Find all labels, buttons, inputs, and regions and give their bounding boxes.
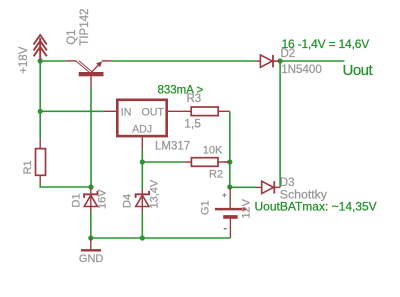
resistor R2 (191, 158, 218, 167)
svg-text:G1: G1 (199, 200, 211, 215)
wire D1 bottom to GND rail (90, 212, 92, 238)
svg-text:R3: R3 (187, 93, 202, 105)
wire Uout stub (280, 60, 344, 62)
svg-text:16V: 16V (97, 189, 109, 209)
pin R1 top (39, 139, 41, 149)
node D2 cathode junction (278, 58, 283, 63)
wire ADJ junction to R2 (142, 161, 183, 163)
battery G1 (215, 187, 246, 238)
wire Q1 base down to D1 junction (90, 88, 92, 188)
diode D3 (256, 181, 281, 193)
pin R2 left (184, 161, 192, 163)
wire top rail left (supply to Q1 collector) (40, 60, 66, 62)
op-amp, regulator U1 LM317 box (117, 100, 166, 136)
wire battery junction to D3 (230, 186, 256, 188)
svg-text:TIP142: TIP142 (79, 9, 91, 46)
diode D2 (255, 55, 280, 67)
wire battery minus corner at GND rail (229, 237, 231, 238)
svg-text:LM317: LM317 (155, 141, 190, 153)
svg-text:R2: R2 (209, 169, 223, 181)
zener diode D4 (136, 189, 149, 212)
pin R1 bottom (39, 175, 41, 185)
svg-text:R1: R1 (22, 160, 34, 174)
svg-text:ADJ: ADJ (132, 123, 152, 135)
wire right tall rail D2 to D3 (279, 61, 281, 187)
zener diode D1 (84, 187, 97, 212)
supply arrow +18V (34, 35, 47, 61)
node ADJ junction (140, 159, 145, 164)
svg-text:16 -1,4V = 14,6V: 16 -1,4V = 14,6V (282, 37, 370, 51)
ground symbol GND (81, 238, 101, 250)
node D1 junction (88, 184, 93, 189)
node GND rail D4 junction (140, 235, 145, 240)
pin R3 right (218, 110, 230, 112)
svg-text:GND: GND (79, 253, 104, 265)
wire R1 bottom to D1 junction (40, 185, 91, 188)
pin D2 cathode over dot (273, 60, 280, 62)
svg-text:10K: 10K (203, 145, 223, 157)
pin R2 right over dot (224, 161, 230, 163)
node +18V junction (38, 58, 43, 63)
svg-text:+18V: +18V (18, 46, 30, 74)
supply pin over dot (39, 52, 41, 61)
wire right mid rail down (229, 111, 231, 187)
wire GND rail (91, 237, 231, 239)
pin LM317 ADJ (141, 137, 143, 151)
node battery plus junction (227, 184, 232, 189)
pin LM317 IN (104, 110, 116, 112)
svg-text:UoutBATmax: ~14,35V: UoutBATmax: ~14,35V (255, 200, 377, 214)
wire ADJ junction down to D4 (141, 162, 143, 189)
wire ADJ to junction (141, 151, 143, 163)
node GND rail left junction (88, 235, 93, 240)
wire D4 bottom to GND rail (141, 212, 143, 238)
svg-text:12V: 12V (241, 198, 253, 218)
svg-text:OUT: OUT (142, 107, 165, 119)
svg-text:Uout: Uout (343, 62, 374, 79)
pin R2 right (218, 161, 230, 163)
node IN wire junction (38, 109, 43, 114)
svg-text:1N5400: 1N5400 (281, 63, 322, 76)
wire top rail Q1 emitter to D2 (112, 60, 255, 62)
svg-text:D4: D4 (121, 194, 133, 208)
resistor R1 (36, 149, 46, 176)
svg-text:IN: IN (121, 107, 132, 119)
pin LM317 OUT to R3 (168, 110, 191, 112)
svg-text:Q1: Q1 (66, 29, 78, 44)
svg-text:13,4V: 13,4V (149, 179, 161, 208)
wire to LM317 IN (40, 110, 104, 112)
resistor R3 (191, 107, 218, 116)
svg-text:D1: D1 (71, 193, 83, 207)
svg-text:1,5: 1,5 (184, 117, 201, 131)
transistor Q1 (66, 61, 112, 88)
node R2 right rail junction (227, 159, 232, 164)
wire left rail (supply down to R1) (39, 61, 41, 139)
